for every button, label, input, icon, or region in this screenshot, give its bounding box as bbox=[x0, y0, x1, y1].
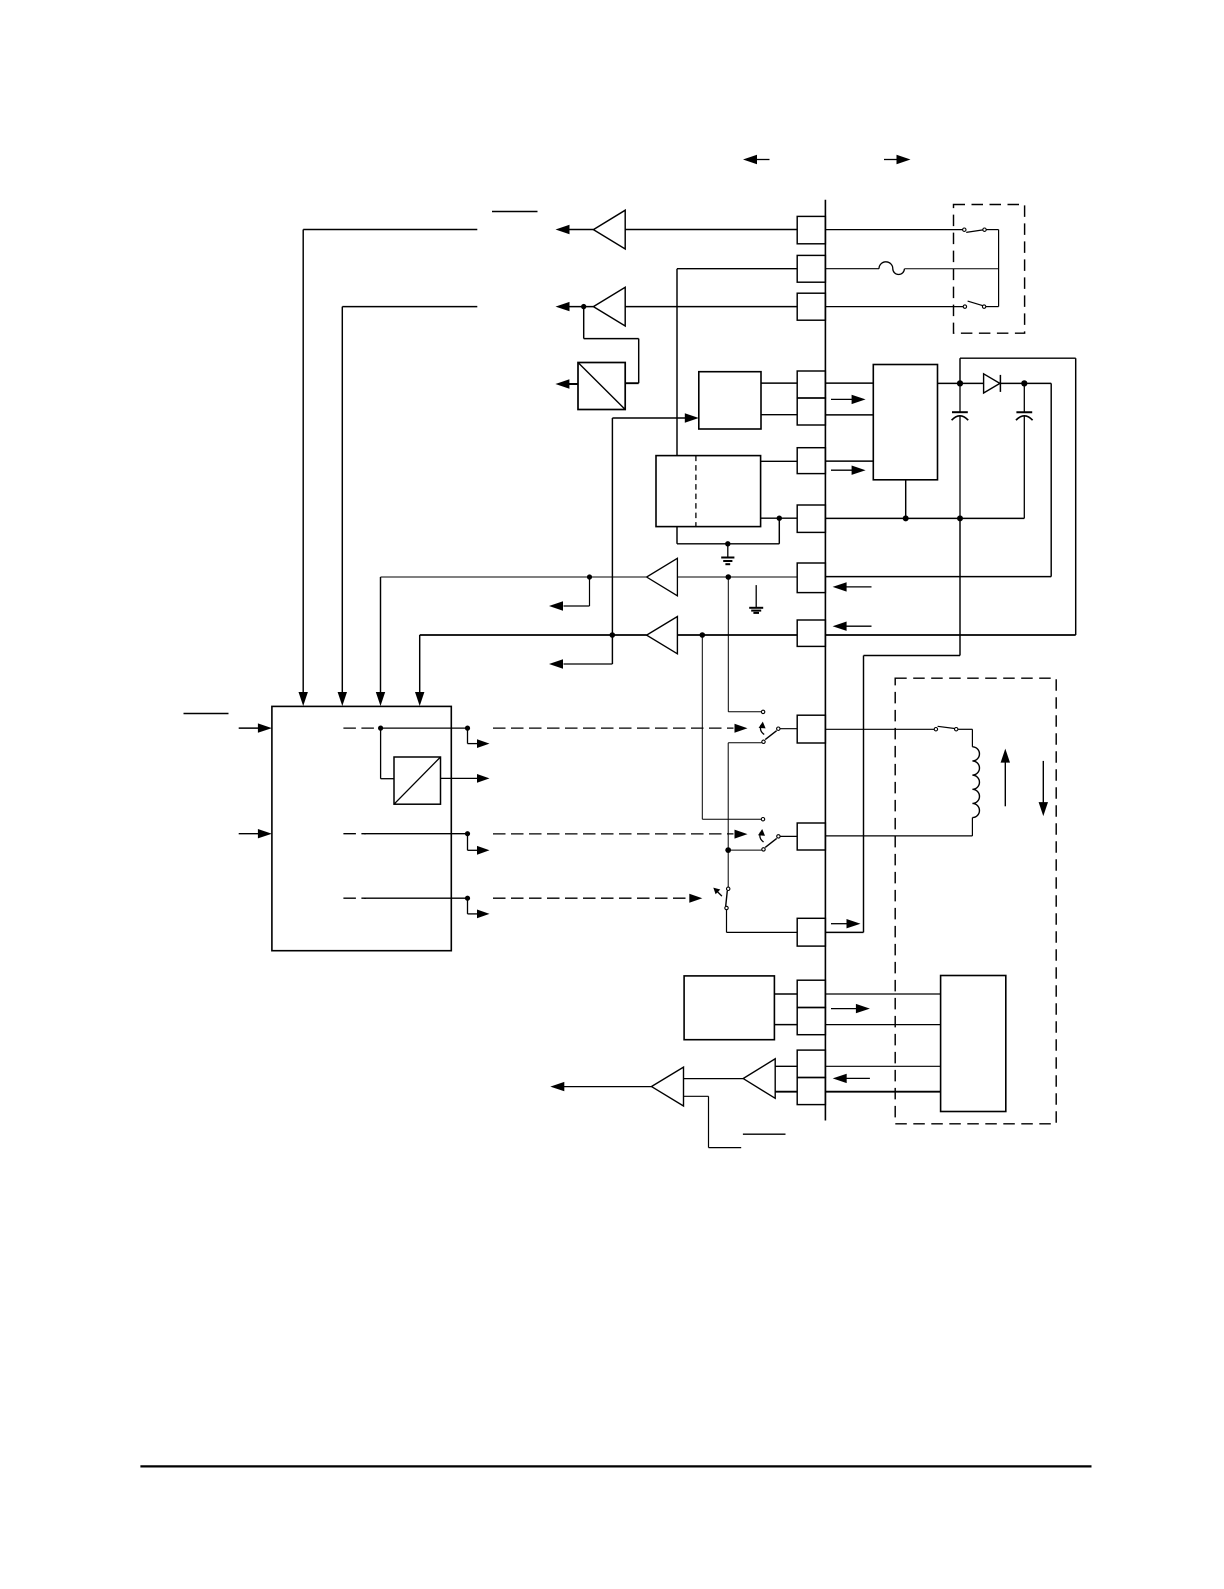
dashed enclosure: network/relay block bbox=[895, 678, 1056, 1124]
wire B4 to regulator bbox=[825, 382, 873, 384]
label overline bottom bbox=[743, 1133, 786, 1135]
node after diode bbox=[1021, 380, 1027, 386]
gnd rail drop to relay section bbox=[959, 518, 961, 655]
hook switch S1b bbox=[963, 305, 966, 308]
wire B3 to hook switch 2 bbox=[825, 306, 963, 308]
direction arrow out of B9 bbox=[846, 625, 872, 627]
direction arrow B12 bbox=[831, 923, 847, 925]
wire rowB drop bbox=[419, 635, 421, 692]
ctl row3 solid bbox=[364, 897, 468, 899]
ctl row2 solid bbox=[364, 833, 468, 835]
wire node to U7 bbox=[590, 576, 647, 578]
connector box B8 bbox=[797, 563, 825, 593]
ctl row1 dashed inside bbox=[343, 727, 377, 729]
ground G1 bbox=[727, 544, 729, 557]
wire U7 to B8 bbox=[677, 576, 728, 578]
buffer U2 bbox=[593, 287, 625, 326]
ctl row1 solid bbox=[381, 727, 468, 729]
wire pole down to S4 bbox=[727, 850, 729, 887]
U13 enable hook bbox=[684, 1095, 709, 1097]
capacitor C1 bbox=[959, 383, 961, 412]
node regulator gnd bbox=[903, 515, 909, 521]
current arrow down bbox=[1042, 761, 1044, 803]
wire rowA node drop to S2 throw bbox=[727, 577, 729, 712]
regulator gnd stub bbox=[905, 480, 907, 519]
node ctl row3 bbox=[465, 896, 470, 901]
wire S1b to loop bbox=[986, 306, 999, 308]
wire S4 to B12 bbox=[726, 910, 728, 933]
arrow out row3 bbox=[570, 306, 594, 308]
buffer U1 bbox=[593, 210, 625, 249]
direction arrow right (top legend) bbox=[884, 159, 897, 161]
node row3 junction bbox=[581, 304, 586, 309]
wire B13 to network bbox=[825, 993, 940, 995]
node rowB right bbox=[700, 632, 706, 638]
wire B6 to regulator bbox=[825, 460, 873, 462]
wire B10 to relay switch bbox=[825, 728, 934, 730]
capacitor C2 bbox=[1023, 383, 1025, 412]
wire row2 drop to hybrid bbox=[676, 269, 678, 456]
wire rowA drop bbox=[380, 577, 382, 692]
wire B14 to network bbox=[825, 1024, 940, 1026]
wire S2 common to B10 bbox=[780, 728, 797, 730]
diode D1 bbox=[963, 382, 984, 384]
wire B16 to U12 (bold) bbox=[775, 1091, 797, 1093]
wire S1a to ring loop bbox=[986, 229, 998, 231]
rail up and right bbox=[959, 358, 961, 383]
direction arrow into regulator 2 bbox=[831, 469, 853, 471]
fuse F1 bbox=[879, 262, 904, 275]
wire U5 out to B6 bbox=[761, 460, 798, 462]
wire S3 common to B11 bbox=[780, 835, 797, 837]
wire rail return to B9 bbox=[825, 634, 1075, 636]
hook switch S1a bbox=[963, 228, 966, 231]
wire row3 to MCU bbox=[342, 306, 477, 308]
wire row3 drop bbox=[341, 307, 343, 693]
S4 bottom contact bbox=[725, 906, 728, 909]
connector box B14 bbox=[797, 1008, 825, 1035]
wire rowA left bbox=[381, 576, 590, 578]
arrow into MCU top pin1 bbox=[299, 692, 308, 706]
MCU box U9 bbox=[272, 706, 451, 950]
S2 lower contact bbox=[762, 740, 765, 743]
current arrow up bbox=[1004, 762, 1006, 806]
arrow out of opto bbox=[569, 383, 578, 385]
arrow input MCU 1 bbox=[239, 727, 260, 729]
arrow ctl row2 bbox=[735, 830, 748, 839]
connector box B10 bbox=[797, 715, 825, 743]
wire B5 to regulator bbox=[825, 414, 873, 416]
wire S2 lower to pole rail bbox=[728, 742, 761, 744]
node Vreg bbox=[957, 380, 963, 386]
modem box U11 bbox=[684, 976, 774, 1040]
connector box B5 bbox=[797, 398, 825, 425]
ground rail right of bus (B7) bbox=[825, 517, 1024, 519]
connector box B6 bbox=[797, 448, 825, 474]
relay coil K1 bbox=[972, 747, 979, 818]
wire row1 to MCU bbox=[303, 229, 477, 231]
wire U5 out2 to B7 bbox=[761, 517, 798, 519]
connector box B12 bbox=[797, 918, 825, 946]
gnd rail under U5 bbox=[677, 543, 779, 545]
S2 rotate arrow bbox=[760, 725, 764, 735]
S4 top contact bbox=[727, 887, 730, 890]
wire rowB left bbox=[420, 634, 613, 636]
wire coil return to B11 bbox=[971, 818, 973, 836]
ctl row2 dashed inside bbox=[343, 833, 366, 835]
wire modem out1 to B13 bbox=[774, 993, 797, 995]
wire U4 out2 to B5 bbox=[761, 414, 797, 416]
wire B15 to network bbox=[825, 1065, 940, 1067]
connector box B9 bbox=[797, 620, 825, 646]
wire U5 bottom stub bbox=[676, 527, 678, 544]
connector box B3 bbox=[797, 293, 825, 320]
relay switch S5 bbox=[934, 728, 937, 731]
buffer U8 bbox=[647, 617, 678, 654]
S3 lever bbox=[765, 838, 777, 847]
arrow ctl row1 bbox=[735, 724, 748, 733]
wire node to U8 bbox=[612, 634, 646, 636]
wire loop right side bbox=[998, 230, 1000, 307]
wire U1 to B1 bbox=[625, 229, 797, 231]
buffer U12 bbox=[743, 1059, 775, 1099]
wire node down to gnd rail bbox=[778, 518, 780, 544]
buffer U7 bbox=[647, 558, 678, 596]
ground G2 (floating) bbox=[755, 585, 757, 607]
arrow input MCU 2 bbox=[239, 833, 260, 835]
arrow out row1 bbox=[570, 229, 594, 231]
wire row1 drop bbox=[302, 230, 304, 693]
arrow DAC out bbox=[441, 777, 478, 779]
wire fuse to loop bbox=[904, 268, 998, 270]
label overline MCU bbox=[184, 713, 229, 715]
node rowA right bbox=[726, 574, 732, 580]
label overline row1 bbox=[492, 211, 538, 213]
arrow into MCU top pin2 bbox=[338, 692, 347, 706]
S3 throw up contact bbox=[761, 818, 764, 821]
S2 lever bbox=[765, 731, 776, 740]
connector box B15 bbox=[797, 1050, 825, 1077]
connector box B13 bbox=[797, 980, 825, 1007]
S3 lower contact bbox=[762, 848, 765, 851]
node ctl row1 outer bbox=[465, 726, 470, 731]
S4 control arrow bbox=[716, 891, 722, 897]
ctl row3 dashed inside bbox=[343, 897, 366, 899]
wire U4 out1 to B4 bbox=[761, 382, 797, 384]
wire diode to right drop bbox=[1024, 382, 1051, 384]
network box U10 bbox=[941, 976, 1006, 1112]
ring detect box U4 bbox=[699, 372, 761, 429]
wire B16 to network bbox=[825, 1091, 940, 1093]
node rowA bbox=[587, 574, 592, 579]
direction arrow left (top legend) bbox=[757, 159, 770, 161]
direction arrow into network bbox=[831, 1008, 856, 1010]
node cap1 gnd bbox=[957, 515, 963, 521]
node ctl row1 inner bbox=[378, 726, 383, 731]
S2 common contact bbox=[777, 727, 780, 730]
direction arrow out of B8 bbox=[846, 586, 872, 588]
arrow audio out bbox=[564, 1086, 652, 1088]
direction arrow into regulator 1 bbox=[831, 398, 853, 400]
wire B15 to U12 bbox=[775, 1065, 797, 1067]
wire node to B8 bbox=[728, 576, 797, 578]
dashed enclosure: line terminals bbox=[954, 205, 1025, 334]
S3 common contact bbox=[777, 835, 780, 838]
node rowB bbox=[610, 632, 616, 638]
branch arrow rowA bbox=[589, 577, 591, 606]
wire rowB node drop to S3 throw bbox=[701, 635, 703, 819]
wire B2 left bbox=[677, 268, 797, 270]
hybrid box U5 with dashed divider bbox=[656, 456, 761, 527]
wire node to B9 bbox=[702, 634, 797, 636]
connector box B1 bbox=[797, 216, 825, 243]
branch arrow rowB bbox=[564, 663, 613, 665]
wire B1 to hook switch bbox=[825, 229, 962, 231]
node switch pole bbox=[725, 847, 731, 853]
arrow ctl row3 bbox=[689, 894, 702, 903]
ctl row2 dashed to switch bbox=[493, 833, 734, 835]
wire modem out2 to B14 bbox=[774, 1024, 797, 1026]
wire U2 to B3 bbox=[625, 306, 797, 308]
bus (vertical interface line) bbox=[824, 200, 826, 1121]
regulator box U6 bbox=[873, 365, 937, 480]
direction arrow out of network bbox=[847, 1077, 870, 1079]
footer rule bbox=[140, 1465, 1091, 1467]
arrow into MCU top pin3 bbox=[376, 692, 385, 706]
connector box B7 bbox=[797, 505, 825, 532]
node on U5 out2 bbox=[777, 516, 782, 521]
wire drop to B8 bbox=[825, 576, 1051, 578]
wire S3 lower to pole node bbox=[728, 849, 761, 851]
branch arrow ctl row1 bbox=[467, 728, 469, 744]
vertical rowB control bbox=[611, 418, 613, 664]
connector box B16 bbox=[797, 1078, 825, 1105]
buffer U13 bbox=[652, 1067, 684, 1106]
wire regulator output bbox=[938, 382, 958, 384]
S3 rotate arrow bbox=[760, 833, 764, 843]
wire U8 to node bbox=[677, 634, 702, 636]
connector box B2 bbox=[797, 255, 825, 282]
arrow into U4 bbox=[612, 417, 686, 419]
opto-isolator U3 bbox=[578, 363, 625, 410]
S4 lever bbox=[726, 891, 728, 906]
wire U12 to U13 bbox=[684, 1078, 744, 1080]
connector box B11 bbox=[797, 823, 825, 850]
node gnd rail bbox=[725, 541, 730, 546]
node ctl row2 bbox=[465, 831, 470, 836]
branch arrow ctl row3 bbox=[467, 898, 469, 914]
wire B2 to fuse bbox=[825, 268, 879, 270]
S2 throw up contact bbox=[761, 710, 764, 713]
connector box B4 bbox=[797, 371, 825, 398]
DAC box with diagonal bbox=[380, 728, 382, 779]
ctl row1 dashed to switch bbox=[493, 727, 734, 729]
wire S5 to coil bbox=[958, 728, 972, 730]
wire node to opto input bbox=[583, 307, 585, 339]
branch arrow ctl row2 bbox=[467, 834, 469, 851]
arrow into MCU top pin4 bbox=[415, 692, 424, 706]
ctl row3 dashed to switch bbox=[493, 897, 689, 899]
